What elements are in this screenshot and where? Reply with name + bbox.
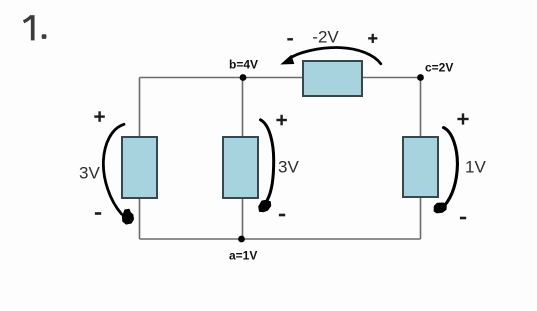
- wire left vertical: [139, 78, 141, 240]
- svg-text:-2V: -2V: [312, 28, 339, 47]
- polarity + middle: [276, 115, 287, 126]
- node b: [240, 74, 247, 81]
- element top -2V source: [303, 61, 362, 96]
- polarity - middle: [279, 214, 285, 217]
- element middle 3V source: [223, 137, 258, 198]
- polarity - top: [287, 38, 293, 40]
- svg-text:a=1V: a=1V: [229, 249, 257, 263]
- node c: [417, 74, 424, 81]
- wire top horizontal b-c: [140, 77, 421, 79]
- wire bottom horizontal through node a: [140, 238, 421, 240]
- hand-drawn arrow right element, points down-left: [434, 128, 458, 214]
- hand-drawn arrow left element, points down-right: [103, 124, 134, 224]
- svg-text:b=4V: b=4V: [229, 58, 258, 72]
- element left 3V source: [122, 137, 157, 198]
- hand-drawn arrow middle element, points down-left: [258, 120, 274, 213]
- label c=2V: [425, 61, 453, 75]
- node a: [238, 236, 245, 243]
- polarity + left: [94, 111, 105, 122]
- hand-drawn arrow over top element pointing left: [280, 48, 381, 65]
- element right 1V source: [403, 137, 438, 197]
- polarity + right: [457, 113, 468, 124]
- wire middle vertical b-a: [242, 78, 244, 240]
- label a=1V: [229, 249, 257, 263]
- svg-text:c=2V: c=2V: [425, 61, 453, 75]
- polarity - right: [460, 217, 466, 220]
- polarity - left: [95, 212, 101, 215]
- value label 3V middle: [278, 157, 299, 176]
- value label 3V left: [79, 164, 100, 183]
- value label 1V right: [465, 158, 486, 177]
- wire right vertical c-a: [420, 78, 422, 240]
- problem number 1.: [24, 15, 47, 40]
- value label -2V top: [312, 28, 339, 47]
- svg-text:3V: 3V: [278, 157, 299, 176]
- label b=4V: [229, 58, 258, 72]
- svg-text:1V: 1V: [465, 158, 486, 177]
- svg-text:3V: 3V: [79, 164, 100, 183]
- polarity + top: [368, 34, 377, 43]
